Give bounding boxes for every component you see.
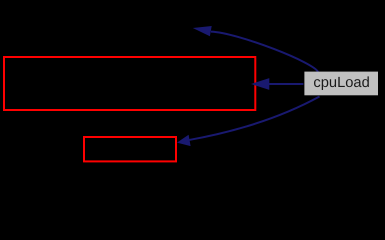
- svg-text:cpuLoad: cpuLoad: [313, 75, 369, 91]
